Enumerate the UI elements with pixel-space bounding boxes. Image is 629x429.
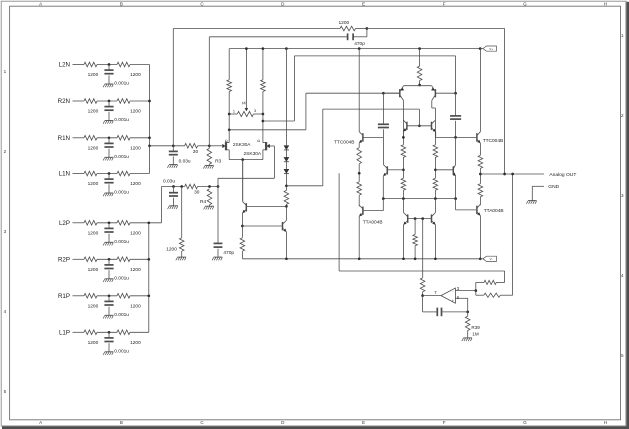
wire	[73, 258, 85, 260]
wire	[108, 307, 110, 316]
svg-text:+: +	[452, 299, 454, 303]
wire GND stub	[532, 185, 544, 187]
wire	[198, 145, 210, 147]
wire to Qb base	[242, 225, 282, 227]
wire	[73, 137, 85, 139]
wire	[293, 56, 295, 121]
junction	[245, 47, 248, 50]
svg-text:3: 3	[621, 193, 624, 198]
svg-text:1200: 1200	[130, 109, 141, 115]
junction	[228, 128, 231, 131]
wire	[254, 113, 263, 115]
wire emitter	[479, 216, 481, 259]
wire collector to V+	[358, 49, 360, 132]
svg-text:B: B	[120, 1, 123, 6]
junction	[454, 92, 457, 95]
wire T1 base	[383, 92, 399, 94]
junction	[358, 172, 361, 175]
wire trimmer wiper	[245, 49, 247, 109]
resistor Q1 drain load	[227, 80, 232, 92]
jfet Q2 2SK30A (right)	[265, 142, 267, 150]
wire	[455, 121, 457, 138]
svg-text:R2P: R2P	[58, 256, 70, 263]
node R2P filter junction	[108, 258, 111, 261]
ground	[205, 164, 214, 166]
wire	[241, 251, 243, 259]
ground	[105, 156, 114, 158]
wire Qa base	[247, 205, 287, 207]
wire P-gate riser	[217, 178, 219, 186]
resistor 1200 (L2N series out)	[117, 62, 130, 67]
svg-text:E: E	[362, 420, 365, 425]
wire	[422, 292, 424, 296]
resistor 1200 (L1N series in)	[84, 171, 97, 176]
wire 470p branch	[209, 36, 347, 38]
junction	[285, 184, 288, 187]
svg-text:TTC004B: TTC004B	[483, 138, 504, 144]
svg-text:1200: 1200	[130, 340, 141, 346]
svg-text:1M: 1M	[472, 332, 479, 337]
wire	[434, 108, 436, 145]
svg-text:0.03u: 0.03u	[179, 159, 191, 165]
wire	[130, 222, 162, 224]
wire	[173, 198, 175, 206]
capacitor 0.001u (L2P)	[104, 227, 113, 229]
wire	[479, 197, 481, 206]
svg-text:1: 1	[4, 69, 7, 74]
resistor (left upper)	[401, 145, 406, 158]
ground	[169, 205, 178, 207]
svg-text:0.001u: 0.001u	[114, 349, 129, 355]
junction	[262, 47, 265, 50]
resistor output (lower)	[478, 184, 483, 197]
wire feedback line	[173, 28, 340, 30]
junction	[434, 197, 437, 200]
capacitor 0.03u (P filter)	[169, 192, 178, 194]
node R1N filter junction	[108, 136, 111, 139]
wire T5 collector	[403, 199, 405, 213]
wire	[305, 93, 307, 130]
wire gate N	[209, 145, 222, 147]
svg-text:G: G	[523, 1, 527, 6]
wire	[353, 36, 367, 38]
wire Tm1 emitter	[382, 176, 384, 199]
wire	[181, 251, 183, 257]
node L1P filter junction	[108, 331, 111, 334]
svg-text:D: D	[257, 139, 261, 142]
wire	[382, 199, 384, 211]
svg-text:0.03u: 0.03u	[163, 178, 175, 184]
transistor T1 (pnp)	[399, 89, 401, 97]
svg-text:R39: R39	[471, 325, 480, 330]
transistor T6	[431, 214, 433, 222]
wire T4 emitter	[435, 132, 437, 138]
wire	[262, 150, 264, 160]
node R2N filter junction	[108, 100, 111, 103]
junction	[421, 217, 424, 220]
wire	[130, 295, 149, 297]
wire	[130, 331, 149, 333]
svg-text:0.001u: 0.001u	[114, 276, 129, 282]
transistor T2 (pnp)	[434, 89, 436, 97]
capacitor 0.001u (L2N)	[104, 69, 113, 71]
wire	[108, 149, 110, 158]
junction	[366, 27, 369, 30]
wire	[108, 174, 110, 180]
wire P bus riser	[161, 187, 163, 223]
resistor R3	[207, 148, 212, 164]
wire tail bar	[403, 85, 431, 87]
svg-text:TTC004B: TTC004B	[334, 140, 355, 146]
wire base	[364, 136, 384, 138]
junction	[418, 124, 421, 127]
svg-text:5: 5	[4, 389, 7, 394]
ground	[463, 337, 472, 339]
resistor emitter (upper)	[357, 148, 362, 164]
svg-text:1200: 1200	[88, 72, 99, 78]
junction	[414, 257, 417, 260]
resistor 1200 (L1P series in)	[84, 330, 97, 335]
junction	[147, 258, 150, 261]
resistor 1200 (L1P series out)	[117, 330, 130, 335]
junction	[402, 197, 405, 200]
capacitor 0.001u (L1P)	[104, 337, 113, 339]
wire	[97, 173, 117, 175]
wire	[108, 332, 110, 338]
wire	[496, 281, 504, 283]
resistor Qa emitter	[240, 238, 245, 251]
wire Qa emitter	[241, 213, 243, 226]
wire	[97, 137, 117, 139]
junction	[148, 144, 151, 147]
junction	[285, 205, 288, 208]
junction	[454, 197, 457, 200]
wire output sense drop	[512, 174, 514, 295]
wire	[479, 168, 481, 183]
ground	[105, 351, 114, 353]
wire	[108, 184, 110, 193]
wire	[108, 270, 110, 279]
wire	[262, 92, 264, 143]
wire bias rail	[294, 55, 455, 57]
wire	[273, 146, 275, 178]
svg-text:R3: R3	[215, 159, 221, 165]
svg-text:1200: 1200	[88, 181, 99, 187]
svg-text:1200: 1200	[88, 146, 99, 152]
wire Tm1 base	[388, 169, 404, 171]
wire mid rail	[383, 198, 455, 200]
wire	[402, 190, 404, 198]
diode D3	[284, 169, 289, 173]
wire	[217, 249, 219, 257]
wire base	[456, 136, 477, 138]
svg-text:TTA004B: TTA004B	[363, 219, 383, 225]
svg-text:0.001u: 0.001u	[114, 190, 129, 196]
svg-text:1200: 1200	[130, 181, 141, 187]
svg-text:H: H	[604, 1, 607, 6]
junction	[402, 136, 405, 139]
wire T2 collector	[431, 100, 433, 108]
wire	[419, 49, 421, 66]
svg-text:E: E	[362, 1, 365, 6]
wire	[423, 295, 441, 297]
junction	[285, 257, 288, 260]
capacitor comp (left)	[378, 123, 389, 125]
wire	[367, 28, 505, 30]
svg-text:0.001u: 0.001u	[114, 117, 129, 123]
wire	[108, 75, 110, 84]
junction	[421, 294, 424, 297]
svg-text:G: G	[523, 420, 527, 425]
junction	[262, 113, 265, 116]
junction	[228, 113, 231, 116]
wire	[198, 186, 218, 188]
junction	[402, 257, 405, 260]
resistor Q2 drain load	[261, 80, 266, 92]
resistor base bleed	[413, 235, 418, 246]
junction	[474, 289, 477, 292]
wire T5 T6 bases	[408, 218, 431, 220]
wire	[285, 150, 287, 157]
junction	[241, 158, 244, 161]
wire V- rail	[242, 258, 480, 260]
svg-text:2: 2	[621, 113, 624, 118]
svg-text:1200: 1200	[88, 267, 99, 273]
svg-text:1200: 1200	[339, 20, 350, 26]
resistor R4	[207, 189, 212, 205]
junction	[414, 217, 417, 220]
jfet Q1 2SK30A (left)	[225, 142, 227, 150]
wire	[476, 281, 484, 283]
svg-text:470p: 470p	[354, 41, 365, 47]
wire	[97, 64, 117, 66]
wire	[422, 296, 424, 312]
wire Qb emitter	[285, 232, 287, 259]
power tag V-	[483, 256, 497, 261]
wire	[285, 204, 287, 206]
wire	[467, 298, 469, 312]
wire servo line	[339, 270, 505, 272]
wire N summing bus	[149, 65, 151, 174]
wire	[97, 222, 117, 224]
transistor Qa	[245, 203, 247, 211]
svg-text:0.001u: 0.001u	[114, 312, 129, 318]
resistor (right lower)	[433, 178, 438, 190]
diode D2	[284, 157, 289, 161]
svg-text:470p: 470p	[223, 250, 234, 256]
wire base	[364, 210, 384, 212]
wire	[467, 312, 469, 316]
transistor T4	[431, 122, 433, 130]
junction	[479, 257, 482, 260]
junction	[147, 221, 150, 224]
svg-text:1200: 1200	[88, 340, 99, 346]
svg-text:3: 3	[4, 229, 7, 234]
wire	[423, 311, 438, 313]
capacitor 0.001u (R1P)	[104, 300, 113, 302]
resistor 1200 (R1N series in)	[84, 136, 97, 141]
wire	[73, 295, 85, 297]
wire	[130, 173, 150, 175]
node L1N filter junction	[108, 172, 111, 175]
ground	[169, 164, 178, 166]
wire Tm2 base	[435, 169, 452, 171]
resistor 1200 (R1P series in)	[84, 294, 97, 299]
transistor T5	[407, 214, 409, 222]
wire	[209, 205, 211, 206]
svg-text:L1N: L1N	[59, 171, 70, 178]
wire	[208, 164, 210, 165]
wire	[229, 113, 237, 115]
junction	[285, 47, 288, 50]
wire riser to driver bases	[322, 109, 324, 186]
wire T2 base	[436, 92, 456, 94]
svg-text:3: 3	[254, 109, 256, 113]
wire	[108, 101, 110, 107]
transistor TTC004B (left)	[362, 133, 364, 141]
junction	[402, 168, 405, 171]
wire	[97, 295, 117, 297]
capacitor comp (right)	[450, 115, 461, 117]
wire	[73, 173, 85, 175]
resistor (right upper)	[433, 145, 438, 158]
junction	[262, 120, 265, 123]
wire Q2 drain column	[262, 49, 264, 80]
wire	[208, 146, 210, 149]
wire	[286, 185, 322, 187]
wire V+ rail	[229, 48, 480, 50]
svg-text:R1P: R1P	[58, 293, 70, 300]
resistor output (upper)	[478, 155, 483, 168]
resistor 1200 (R2P series in)	[84, 257, 97, 262]
wire	[97, 331, 117, 333]
wire	[181, 187, 183, 238]
svg-text:5: 5	[621, 353, 624, 358]
node L2N filter junction	[108, 63, 111, 66]
transistor Qb	[282, 222, 284, 230]
junction	[479, 47, 482, 50]
resistor 1200 (R2N series out)	[117, 99, 130, 104]
wire T3 T4 bases	[408, 125, 431, 127]
resistor 30 (N filter)	[185, 144, 198, 149]
wire	[414, 246, 416, 259]
wire	[97, 100, 117, 102]
svg-text:0.001u: 0.001u	[114, 239, 129, 245]
svg-text:V+: V+	[489, 47, 493, 51]
junction output node	[479, 173, 482, 176]
junction	[147, 294, 150, 297]
svg-text:0.001u: 0.001u	[114, 81, 129, 87]
svg-text:1200: 1200	[88, 304, 99, 310]
wire	[73, 100, 85, 102]
svg-text:L2P: L2P	[59, 220, 70, 227]
svg-text:2: 2	[4, 149, 7, 154]
svg-text:30: 30	[194, 189, 200, 195]
wire	[73, 222, 85, 224]
wire Qb collector	[285, 206, 287, 220]
svg-text:F: F	[443, 1, 446, 6]
capacitor 0.03u (N filter)	[169, 150, 178, 152]
resistor 1200 (R1N series out)	[117, 136, 130, 141]
trimmer wiper arrow	[245, 108, 248, 111]
transistor TTA004B (right)	[476, 206, 478, 214]
transistor Tm2	[452, 166, 454, 174]
wire	[382, 93, 384, 124]
capacitor 0.001u (L1N)	[104, 178, 113, 180]
ground	[205, 205, 214, 207]
resistor 1200 (L2P series out)	[117, 221, 130, 226]
wire feedback column to N-in	[172, 29, 174, 146]
svg-text:GND: GND	[548, 184, 559, 190]
resistor 1200 (P shunt)	[179, 238, 184, 251]
junction	[503, 173, 506, 176]
wire T6 collector	[434, 199, 436, 213]
svg-text:1200: 1200	[130, 72, 141, 78]
wire	[356, 28, 367, 30]
wire	[130, 100, 150, 102]
svg-text:L2N: L2N	[59, 62, 70, 69]
junction	[358, 257, 361, 260]
wire	[480, 258, 483, 260]
wire T1 collector	[402, 100, 404, 144]
junction tail node	[418, 84, 421, 87]
wire driver base line	[323, 108, 420, 110]
wire	[285, 162, 287, 170]
svg-text:R1N: R1N	[58, 135, 70, 142]
op-amp U1	[441, 288, 455, 303]
ground	[177, 256, 186, 258]
svg-text:1200: 1200	[130, 146, 141, 152]
ground	[105, 120, 114, 122]
wire to T1 base	[306, 92, 399, 94]
junction	[148, 136, 151, 139]
svg-text:F: F	[443, 420, 446, 425]
wire	[414, 219, 416, 235]
wire	[241, 226, 243, 238]
wire P summing bus	[148, 223, 150, 332]
junction	[382, 197, 385, 200]
wire	[130, 137, 150, 139]
junction	[382, 92, 385, 95]
svg-text:D: D	[225, 139, 229, 142]
wire	[108, 223, 110, 229]
wire T3 emitter	[402, 132, 404, 138]
resistor (left lower)	[401, 178, 406, 190]
transistor T3	[406, 122, 408, 130]
wire	[467, 331, 469, 338]
svg-text:B: B	[120, 420, 123, 425]
junction	[466, 311, 469, 314]
wire	[218, 177, 274, 179]
resistor emitter (lower)	[357, 182, 362, 195]
wire	[455, 56, 457, 93]
ground	[105, 314, 114, 316]
node L2P filter junction	[108, 221, 111, 224]
wire	[455, 199, 457, 210]
wire Qa collector	[242, 160, 244, 202]
wire	[162, 186, 185, 188]
capacitor servo integrator	[436, 308, 438, 317]
wire	[504, 271, 506, 282]
resistor 1200 (R1P series out)	[117, 294, 130, 299]
wire	[285, 174, 287, 191]
wire	[269, 145, 274, 147]
wire	[228, 150, 230, 160]
ground	[214, 256, 223, 258]
capacitor 470p (P shunt)	[214, 242, 223, 244]
wire	[442, 311, 468, 313]
wire	[73, 64, 85, 66]
